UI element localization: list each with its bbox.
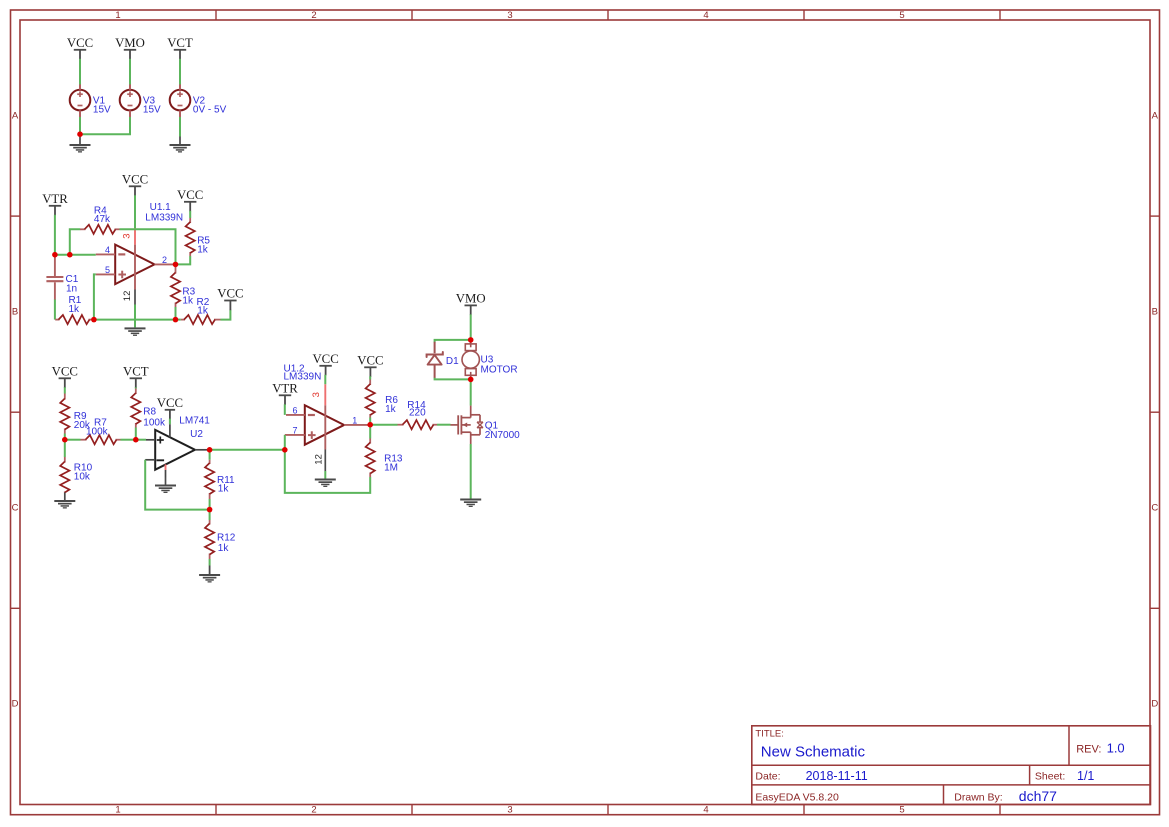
svg-text:3: 3	[507, 10, 512, 21]
wire	[65, 439, 81, 441]
svg-text:dch77: dch77	[1019, 788, 1057, 804]
svg-text:Drawn By:: Drawn By:	[954, 792, 1002, 804]
svg-text:VMO: VMO	[456, 292, 486, 306]
pin 5 label	[105, 265, 110, 275]
resistor R13	[366, 439, 403, 478]
power port VCC	[67, 36, 93, 60]
wire	[209, 499, 211, 510]
svg-text:U1.1: U1.1	[150, 202, 172, 213]
svg-text:D1: D1	[446, 356, 459, 367]
resistor R3	[171, 267, 196, 308]
svg-text:1k: 1k	[69, 304, 81, 315]
wire	[169, 419, 171, 425]
wire	[129, 59, 131, 85]
svg-text:1k: 1k	[197, 306, 209, 317]
svg-text:15V: 15V	[93, 104, 111, 115]
wire	[179, 59, 181, 85]
wire	[209, 559, 211, 566]
ground	[155, 478, 176, 494]
ground	[125, 327, 146, 336]
svg-text:EasyEDA V5.8.20: EasyEDA V5.8.20	[755, 792, 839, 804]
svg-text:1: 1	[115, 10, 120, 21]
svg-text:A: A	[1152, 111, 1159, 122]
svg-text:New Schematic: New Schematic	[761, 744, 866, 761]
wire	[64, 387, 66, 393]
resistor R4	[80, 205, 120, 234]
wire	[179, 117, 181, 137]
wire	[64, 440, 66, 457]
resistor R2	[181, 297, 221, 324]
svg-text:100k: 100k	[86, 426, 109, 437]
wire	[176, 256, 191, 264]
svg-text:1k: 1k	[182, 296, 194, 307]
wire	[284, 435, 286, 450]
wire	[176, 319, 181, 321]
svg-text:VCT: VCT	[167, 36, 193, 50]
wire	[210, 449, 285, 451]
node op-amp U2 output	[207, 447, 213, 453]
ground	[170, 137, 191, 153]
wire	[175, 307, 177, 320]
svg-text:1n: 1n	[66, 283, 77, 294]
resistor R9	[60, 394, 91, 434]
wire	[54, 300, 56, 320]
pin 4 label	[105, 245, 110, 255]
wire	[80, 117, 130, 134]
power port VCC	[52, 365, 78, 389]
svg-text:C: C	[12, 503, 19, 514]
svg-text:LM339N: LM339N	[145, 213, 183, 224]
wire	[470, 444, 472, 499]
wire	[134, 195, 136, 228]
capacitor C1	[46, 257, 78, 301]
wire	[136, 439, 146, 441]
power port VCC	[312, 352, 338, 376]
pin 1 label	[352, 415, 357, 425]
wire	[189, 211, 191, 218]
resistor R1	[55, 295, 93, 324]
svg-text:2N7000: 2N7000	[485, 430, 520, 441]
svg-text:VCT: VCT	[123, 365, 149, 379]
wire	[135, 387, 137, 388]
svg-text:2: 2	[311, 805, 316, 816]
wire	[370, 424, 397, 426]
wire	[79, 59, 81, 85]
svg-text:1M: 1M	[384, 463, 398, 474]
node VMO/D1/motor	[468, 337, 474, 343]
svg-text:REV:: REV:	[1076, 744, 1101, 756]
wire	[55, 254, 96, 256]
pin 3 label	[311, 392, 322, 397]
svg-text:R12: R12	[217, 532, 236, 543]
svg-text:U2: U2	[190, 429, 203, 440]
power port VCC	[157, 396, 183, 420]
wire	[470, 379, 472, 405]
svg-text:1.0: 1.0	[1107, 741, 1125, 756]
transistor Q1	[451, 406, 521, 444]
ground	[315, 479, 336, 488]
resistor R6	[366, 380, 399, 418]
node motor/D1/drain	[468, 377, 474, 383]
title block	[752, 726, 1151, 805]
svg-text:100k: 100k	[143, 418, 166, 429]
svg-text:C: C	[1151, 503, 1158, 514]
svg-text:3: 3	[121, 233, 132, 238]
svg-text:VCC: VCC	[157, 396, 183, 410]
svg-text:VCC: VCC	[52, 365, 78, 379]
power port VMO	[115, 36, 145, 60]
svg-text:12: 12	[313, 454, 324, 465]
svg-text:10k: 10k	[74, 472, 91, 483]
svg-text:VCC: VCC	[67, 36, 93, 50]
svg-text:VTR: VTR	[272, 382, 298, 396]
voltage source V3	[120, 84, 161, 117]
wire	[435, 340, 471, 343]
svg-text:1: 1	[115, 805, 120, 816]
wire	[221, 310, 231, 320]
svg-text:VMO: VMO	[115, 36, 145, 50]
svg-text:4: 4	[703, 805, 708, 816]
wire	[135, 428, 137, 440]
wire	[120, 229, 176, 264]
svg-text:VCC: VCC	[122, 173, 148, 187]
node R1/pin5	[91, 317, 97, 323]
node R7/R8/op-amp input	[133, 437, 139, 443]
svg-text:1k: 1k	[218, 543, 230, 554]
svg-text:2018-11-11: 2018-11-11	[806, 769, 868, 783]
svg-text:VTR: VTR	[42, 192, 68, 206]
voltage source V1	[70, 84, 111, 117]
svg-text:3: 3	[507, 805, 512, 816]
wire	[324, 375, 326, 385]
wire	[70, 229, 80, 254]
wire	[64, 434, 66, 440]
svg-text:B: B	[12, 307, 18, 318]
svg-text:Sheet:: Sheet:	[1035, 771, 1065, 783]
svg-text:5: 5	[899, 805, 904, 816]
svg-text:R8: R8	[143, 407, 156, 418]
wire	[369, 425, 371, 439]
power port VCC	[177, 188, 203, 212]
wire	[79, 117, 81, 134]
wire	[285, 450, 370, 493]
wire	[94, 274, 96, 319]
svg-text:4: 4	[105, 245, 110, 255]
svg-text:6: 6	[292, 405, 297, 415]
svg-text:5: 5	[899, 10, 904, 21]
node VTR/C1	[52, 252, 58, 258]
svg-text:MOTOR: MOTOR	[481, 365, 518, 376]
svg-text:D: D	[12, 699, 19, 710]
wire	[437, 424, 451, 426]
pin 12 label	[313, 454, 324, 465]
voltage source V2	[170, 84, 227, 117]
resistor R7	[81, 417, 121, 444]
svg-text:5: 5	[105, 265, 110, 275]
power port VCT	[167, 36, 193, 60]
svg-text:47k: 47k	[94, 214, 111, 225]
resistor R5	[186, 218, 211, 256]
svg-text:Date:: Date:	[755, 771, 780, 783]
svg-text:4: 4	[703, 10, 708, 21]
wire	[121, 439, 136, 441]
resistor R8	[131, 389, 166, 429]
node R4 branch	[67, 252, 73, 258]
motor U3	[462, 340, 518, 379]
node R11/R12 divider	[207, 507, 213, 513]
wire	[435, 378, 471, 380]
wire	[209, 450, 211, 460]
svg-text:VCC: VCC	[357, 354, 383, 368]
comparator U1.1	[96, 202, 183, 305]
power port VTR	[42, 192, 68, 216]
ground	[199, 566, 220, 583]
resistor R14	[398, 400, 438, 430]
svg-text:LM741: LM741	[179, 415, 210, 426]
power port VCC	[217, 287, 243, 311]
svg-text:3: 3	[311, 392, 322, 397]
power port VCC	[357, 354, 383, 378]
svg-text:D: D	[1151, 699, 1158, 710]
svg-text:1: 1	[352, 415, 357, 425]
wire	[369, 376, 371, 379]
svg-text:1/1: 1/1	[1077, 769, 1094, 783]
wire	[134, 305, 136, 328]
ground	[54, 493, 75, 509]
svg-text:1k: 1k	[385, 404, 397, 415]
pin 2 label	[162, 255, 167, 265]
power port VCC	[122, 173, 148, 197]
power port VMO	[456, 292, 486, 316]
svg-text:VCC: VCC	[217, 287, 243, 301]
svg-text:VCC: VCC	[177, 188, 203, 202]
svg-text:15V: 15V	[143, 104, 161, 115]
resistor R10	[60, 457, 92, 493]
svg-text:1k: 1k	[218, 484, 230, 495]
resistor R11	[205, 460, 235, 499]
node V1/V3 ground junction	[77, 131, 83, 137]
svg-text:7: 7	[292, 425, 297, 435]
comparator U1.2	[284, 364, 369, 472]
pin 3 label	[121, 233, 132, 238]
svg-text:VCC: VCC	[312, 352, 338, 366]
wire	[284, 404, 286, 415]
power port VTR	[272, 382, 298, 406]
wire	[94, 319, 176, 321]
ground	[70, 135, 91, 153]
svg-text:A: A	[12, 111, 19, 122]
svg-text:2: 2	[311, 10, 316, 21]
svg-text:B: B	[1152, 307, 1158, 318]
pin 12 label	[122, 291, 133, 302]
node comparator output	[173, 262, 179, 268]
node U2 output to pin 7	[282, 447, 288, 453]
node R9/R7/R10	[62, 437, 68, 443]
wire	[54, 215, 56, 255]
svg-text:LM339N: LM339N	[284, 372, 322, 383]
svg-text:2: 2	[162, 255, 167, 265]
op-amp U2	[145, 415, 210, 477]
wire	[209, 510, 211, 520]
diode D1 (zener)	[427, 342, 460, 378]
power port VCT	[123, 365, 149, 389]
node comparator U1.2 output	[367, 422, 373, 428]
svg-text:TITLE:: TITLE:	[755, 729, 784, 740]
svg-text:1k: 1k	[197, 245, 209, 256]
svg-text:220: 220	[409, 408, 426, 419]
node R3/R2	[173, 317, 179, 323]
pin 7 label	[292, 425, 297, 435]
svg-text:0V - 5V: 0V - 5V	[193, 104, 227, 115]
pin 6 label	[292, 405, 297, 415]
svg-text:12: 12	[122, 291, 133, 302]
resistor R12	[205, 520, 236, 559]
wire	[145, 460, 209, 510]
ground	[460, 499, 481, 508]
wire	[369, 418, 371, 425]
wire	[470, 314, 472, 340]
wire	[324, 471, 326, 479]
